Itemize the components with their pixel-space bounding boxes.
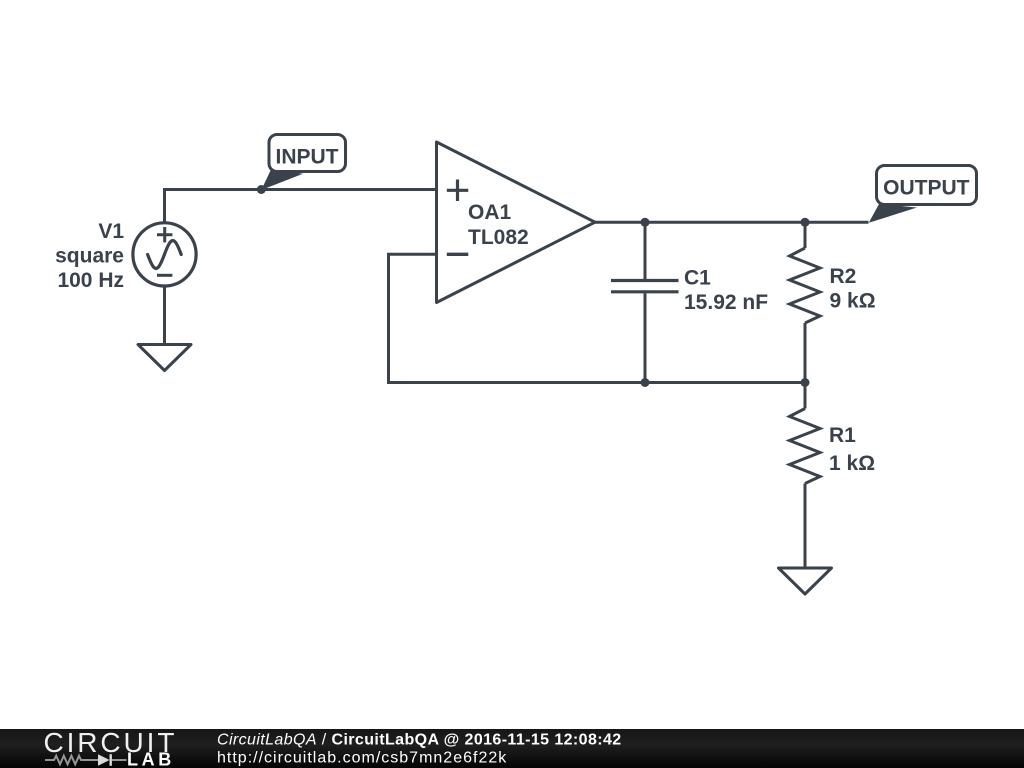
svg-text:http://circuitlab.com/csb7mn2e: http://circuitlab.com/csb7mn2e6f22k xyxy=(217,750,507,767)
node junction dot output/R2 xyxy=(801,218,810,227)
wire output: op-amp tip to OUTPUT flag xyxy=(594,221,869,224)
svg-text:OUTPUT: OUTPUT xyxy=(883,177,970,200)
svg-text:LAB: LAB xyxy=(127,750,175,768)
svg-text:square: square xyxy=(55,245,124,268)
svg-text:R2: R2 xyxy=(830,265,857,288)
svg-text:R1: R1 xyxy=(829,424,856,447)
node junction dot output/C1 xyxy=(641,218,650,227)
C1 value 15.92 nF xyxy=(684,291,768,314)
svg-text:9 kΩ: 9 kΩ xyxy=(830,290,876,313)
V1 value square xyxy=(55,245,124,268)
capacitor C1 xyxy=(611,222,679,382)
svg-text:CircuitLabQA / CircuitLabQA @: CircuitLabQA / CircuitLabQA @ 2016-11-15… xyxy=(217,732,622,749)
svg-text:V1: V1 xyxy=(98,220,124,243)
wire input net: V1 top to op-amp + input xyxy=(165,190,438,225)
OA1 value TL082 xyxy=(468,226,529,249)
svg-text:1 kΩ: 1 kΩ xyxy=(829,452,875,475)
R2 value 9 kOhm xyxy=(830,290,876,313)
svg-text:100 Hz: 100 Hz xyxy=(57,269,124,292)
OA1 label xyxy=(468,201,512,224)
footer logo CIRCUIT text xyxy=(44,727,178,758)
voltage source V1 xyxy=(133,223,196,286)
V1 label xyxy=(98,220,124,243)
svg-text:C1: C1 xyxy=(684,267,711,290)
node INPUT junction dot xyxy=(257,185,266,194)
svg-text:INPUT: INPUT xyxy=(276,145,339,168)
footer bar xyxy=(0,729,1024,768)
footer logo LAB text xyxy=(127,750,175,768)
svg-text:TL082: TL082 xyxy=(468,226,529,249)
V1 value 100 Hz xyxy=(57,269,124,292)
C1 label xyxy=(684,267,711,290)
op-amp OA1 xyxy=(437,142,596,303)
footer credit line xyxy=(217,732,622,749)
node junction dot bottom/R1 R2 xyxy=(801,378,810,387)
svg-text:15.92 nF: 15.92 nF xyxy=(684,291,768,314)
ground under R1 xyxy=(779,568,832,594)
footer url line xyxy=(217,750,507,767)
R1 value 1 kOhm xyxy=(829,452,875,475)
resistor R2 xyxy=(790,222,821,382)
wire V1 bottom to ground xyxy=(163,286,166,344)
node OUTPUT callout flag xyxy=(869,166,977,223)
node junction dot bottom/C1 xyxy=(641,378,650,387)
footer logo resistor-diode glyph xyxy=(45,754,127,766)
svg-text:OA1: OA1 xyxy=(468,201,512,224)
node INPUT callout flag xyxy=(261,135,345,191)
R1 label xyxy=(829,424,856,447)
resistor R1 xyxy=(790,383,821,568)
ground under V1 xyxy=(138,345,191,371)
wire feedback: op-amp minus input around to bottom rail xyxy=(389,254,807,382)
R2 label xyxy=(830,265,857,288)
